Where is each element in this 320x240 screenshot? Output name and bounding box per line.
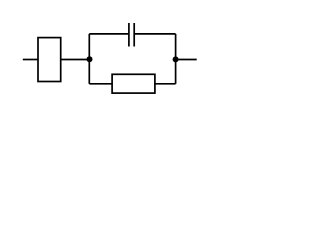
resistor R2: [112, 74, 155, 93]
resistor R1: [38, 38, 61, 82]
wire left lead: [23, 59, 39, 61]
node A: [87, 56, 93, 62]
wire top left: [89, 33, 128, 35]
node B: [173, 56, 179, 62]
wire R1 to node A: [61, 59, 90, 61]
wire bottom left: [89, 83, 112, 85]
wire top right: [135, 33, 176, 35]
capacitor C1: [129, 23, 134, 47]
wire right lead: [176, 59, 197, 61]
wire right vertical: [175, 34, 177, 84]
wire left vertical: [88, 34, 90, 84]
wire bottom right: [155, 83, 176, 85]
